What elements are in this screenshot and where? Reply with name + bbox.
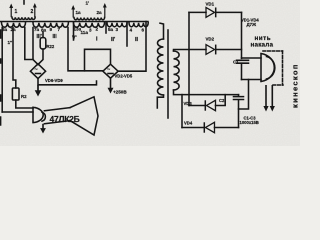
wire: VD6-VD9 output node xyxy=(38,79,97,85)
filament transformer T2 primary xyxy=(157,23,163,108)
wire: pin 8a to R22 xyxy=(42,32,44,38)
secondary winding V/I (pins 13a,11a,3,2) xyxy=(74,23,105,27)
svg-text:7: 7 xyxy=(58,27,61,32)
winding primary 1 (pins 1-2) xyxy=(9,1,36,20)
svg-text:1: 1 xyxy=(15,9,18,15)
svg-text:2a: 2a xyxy=(97,10,103,15)
wire: pin 3a down the left edge xyxy=(1,28,3,113)
scan artifact nubs on left edge xyxy=(0,30,2,125)
diode VD2 xyxy=(206,37,242,55)
svg-text:накала: накала xyxy=(251,42,274,49)
wire: T2 secondary bottom lead to common line xyxy=(174,90,239,95)
capacitor C2 xyxy=(219,95,244,128)
wire: lower lead jog down to C2 branch xyxy=(239,80,249,110)
filament heater inside neck xyxy=(261,54,274,82)
wire: left edge to CRT cathode (lower gun wire) xyxy=(2,111,33,113)
svg-text:1″: 1″ xyxy=(8,40,14,45)
svg-text:1': 1' xyxy=(86,1,90,6)
output arrow of VD6-VD9 xyxy=(37,85,39,92)
bridge rectifier VD6-VD9 xyxy=(30,64,63,83)
svg-text:Д7Ж: Д7Ж xyxy=(247,22,257,27)
svg-text:C2: C2 xyxy=(219,98,225,103)
T2 secondary xyxy=(174,51,180,90)
svg-text:VD2-VD5: VD2-VD5 xyxy=(115,74,133,79)
wire: filament upper lead xyxy=(242,57,262,59)
svg-text:5a: 5a xyxy=(108,27,114,32)
wire: R22 down to bridge Y xyxy=(38,49,43,65)
wire: pin 2a to resistor R2 chain xyxy=(13,28,16,89)
output arrow +250V of VD2-VD5 xyxy=(110,78,112,89)
svg-text:3: 3 xyxy=(89,28,92,33)
capacitor C1 xyxy=(233,60,249,65)
wire: pin 2a down, joins pin 7a wire xyxy=(25,28,33,60)
wire: divider pin stub xyxy=(126,23,128,46)
wire: mains bus / transformer core line xyxy=(1,21,149,23)
svg-text:III: III xyxy=(53,34,58,40)
pin labels of secondaries xyxy=(2,27,145,46)
diode VD4 xyxy=(182,121,239,133)
secondary winding III (pins 7a,8a,9,7) xyxy=(33,23,68,27)
svg-text:R22: R22 xyxy=(47,44,55,49)
svg-text:1a: 1a xyxy=(76,10,82,15)
svg-text:2: 2 xyxy=(96,27,99,32)
svg-text:II: II xyxy=(135,37,138,43)
svg-text:47ЛК2Б: 47ЛК2Б xyxy=(50,114,80,124)
wire: S3 left pin stub xyxy=(73,23,75,40)
svg-text:VD1: VD1 xyxy=(206,2,215,7)
svg-text:1000x15В: 1000x15В xyxy=(240,120,259,125)
svg-text:VD4: VD4 xyxy=(184,121,193,126)
secondary winding I (pins 3a,2a) xyxy=(2,23,26,27)
wire: divider pin stub 2 xyxy=(105,23,107,33)
bridge rectifier VD2-VD5 xyxy=(103,64,133,78)
rectified rail to C1 and filament xyxy=(241,12,243,58)
kinescope 47LK2B electron gun xyxy=(33,107,45,122)
svg-text:9: 9 xyxy=(50,27,53,32)
kinescope neck (dashed envelope) xyxy=(263,51,283,85)
svg-text:6: 6 xyxy=(142,27,145,32)
svg-text:кинескоп: кинескоп xyxy=(291,63,300,108)
svg-text:3: 3 xyxy=(116,27,119,32)
svg-text:2: 2 xyxy=(31,9,34,15)
svg-text:~: ~ xyxy=(35,67,38,73)
wire: left branch to VD4 xyxy=(181,95,183,128)
wire: diode feed rail xyxy=(188,12,190,105)
kinescope neck outline xyxy=(44,108,70,124)
winding primary 2 (pins 1a-2a) xyxy=(71,1,106,20)
svg-text:8a: 8a xyxy=(41,27,47,32)
svg-text:4: 4 xyxy=(130,27,133,32)
cathode arrow below gun xyxy=(42,124,44,129)
svg-text:R2: R2 xyxy=(21,94,27,99)
resistor R22 xyxy=(40,38,46,50)
svg-text:VD6-VD9: VD6-VD9 xyxy=(45,78,63,83)
svg-text:~: ~ xyxy=(107,67,110,73)
wire: T2 secondary top lead to VD2 anode xyxy=(174,50,207,52)
filament lead arrows xyxy=(265,85,267,107)
wire: pin 7 down, to bridge VD2-VD5 left input xyxy=(68,28,103,71)
svg-text:VD2: VD2 xyxy=(206,37,215,42)
wire: R2 to CRT grid (upper gun wire) xyxy=(16,100,33,108)
svg-text:II': II' xyxy=(111,37,115,43)
wire: pin 7a down to bridge Y xyxy=(33,28,38,65)
wire: filament lower lead xyxy=(242,79,262,81)
secondary winding II (pins 5a,3,4,6) xyxy=(107,23,127,27)
wire: pin 6 down to bridge VD2-VD5 right input xyxy=(118,22,146,72)
wire: winding tap loop into VD2-VD5 top xyxy=(85,49,111,71)
diode VD3 xyxy=(184,95,226,111)
T2 core xyxy=(167,30,169,118)
diode VD1 xyxy=(189,2,242,18)
svg-text:7a: 7a xyxy=(34,27,40,32)
kinescope funnel and screen xyxy=(70,97,98,135)
svg-text:11a: 11a xyxy=(81,30,89,35)
svg-text:+250В: +250В xyxy=(113,90,127,95)
svg-text:V': V' xyxy=(72,36,77,42)
resistor R2 xyxy=(12,88,19,100)
